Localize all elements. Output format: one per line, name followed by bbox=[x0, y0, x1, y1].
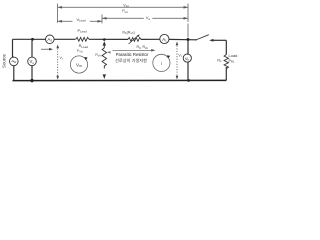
wire Vs lower bbox=[31, 66, 33, 81]
wire top before A1 bbox=[141, 38, 160, 40]
wire right rail lower bbox=[225, 67, 227, 80]
meter Vs circle bbox=[28, 57, 37, 66]
current arrow i below A2 bbox=[41, 48, 53, 51]
loop current i circle bbox=[153, 54, 170, 71]
dimension extension line left bbox=[57, 4, 59, 23]
voltmeter Vm loop circle bbox=[70, 56, 87, 73]
wire source lower bbox=[13, 57, 14, 80]
dimension line VLead bbox=[58, 20, 103, 23]
svg-text:RLead: RLead bbox=[79, 44, 89, 49]
svg-text:Rb, Rsh: Rb, Rsh bbox=[137, 45, 149, 50]
svg-text:V₂: V₂ bbox=[178, 54, 182, 58]
svg-text:Va: Va bbox=[146, 15, 151, 21]
node bottom left junction bbox=[30, 79, 33, 82]
dimension extension line right bbox=[187, 4, 189, 38]
wire left rail upper bbox=[12, 39, 14, 57]
voltmeter V0 circle right bbox=[183, 41, 191, 81]
voltage arrow dotted left bbox=[56, 45, 59, 80]
ammeter A1 bbox=[160, 34, 169, 43]
svg-text:Vb: Vb bbox=[185, 56, 190, 62]
node junction right bbox=[187, 38, 190, 41]
svg-text:PVm: PVm bbox=[77, 49, 83, 54]
node bottom right junction bbox=[187, 79, 190, 82]
dimension extension tick middle bbox=[101, 14, 103, 23]
voltage arrow dotted right bbox=[176, 42, 179, 80]
svg-text:Ptot: Ptot bbox=[122, 9, 128, 14]
wire top right bbox=[213, 39, 227, 41]
svg-text:Rb(Rsh): Rb(Rsh) bbox=[122, 31, 134, 36]
node junction parasitic bbox=[103, 38, 106, 41]
svg-text:Vtot: Vtot bbox=[123, 2, 129, 8]
ammeter A2 bbox=[46, 35, 55, 44]
svg-text:PRL: PRL bbox=[229, 59, 235, 64]
svg-text:RL: RL bbox=[217, 59, 222, 64]
svg-text:RVm: RVm bbox=[95, 53, 102, 58]
wire top after A2 bbox=[54, 38, 75, 40]
source AC circle bbox=[10, 57, 19, 66]
node junction top (Vs branch) bbox=[31, 38, 34, 41]
svg-text:Load: Load bbox=[229, 53, 238, 58]
svg-text:PLead: PLead bbox=[78, 29, 87, 34]
svg-text:A₂: A₂ bbox=[47, 37, 52, 42]
svg-text:A₁: A₁ bbox=[162, 37, 167, 42]
svg-text:선로상의 기생저항: 선로상의 기생저항 bbox=[115, 57, 147, 64]
dimension line Va bbox=[102, 17, 188, 20]
wire bottom bbox=[13, 79, 227, 81]
svg-text:Vs: Vs bbox=[30, 59, 35, 65]
svg-text:Parasitic Resistor: Parasitic Resistor bbox=[116, 52, 149, 57]
wire Vs branch upper bbox=[31, 39, 33, 57]
parasitic resistor leader arrow bbox=[107, 49, 156, 54]
dimension line Vtot bbox=[58, 6, 189, 9]
source label bbox=[2, 53, 7, 67]
parasitic resistor vertical with arrows bbox=[102, 41, 106, 79]
resistor R_Lead zigzag bbox=[76, 37, 89, 41]
wire right rail upper bbox=[225, 40, 227, 54]
wire top left segment bbox=[13, 38, 46, 40]
variable resistor Rb zigzag bbox=[128, 35, 141, 45]
svg-text:Source: Source bbox=[2, 53, 7, 67]
wire top mid bbox=[89, 38, 128, 40]
switch SW bbox=[195, 35, 213, 42]
wire top to switch bbox=[169, 38, 196, 40]
svg-text:Vm: Vm bbox=[76, 62, 82, 68]
svg-text:VLead: VLead bbox=[76, 17, 85, 23]
resistor load zigzag bbox=[224, 55, 228, 69]
